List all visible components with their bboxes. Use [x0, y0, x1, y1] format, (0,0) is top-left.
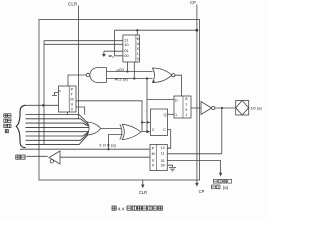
svg-text:s: s — [59, 89, 61, 93]
svg-text:4.4: 4.4 — [118, 206, 125, 212]
svg-text:P: P — [152, 146, 155, 150]
svg-text:00: 00 — [161, 163, 165, 167]
wire chip5 pin 01 down arrow — [167, 161, 220, 173]
svg-text:CLR: CLR — [139, 190, 147, 195]
CP bottom arrow — [195, 183, 198, 187]
chip5 pin1 wire — [167, 147, 170, 149]
nor gate G2 — [153, 68, 172, 83]
wire CP horizontal y30 — [115, 29, 197, 31]
wire to chip2 from brace hook — [26, 104, 59, 106]
svg-text:9: 9 — [185, 108, 187, 112]
pmux U5 chip5 — [150, 145, 167, 171]
CLR bottom output wire — [142, 180, 144, 185]
svg-text:U: U — [152, 159, 155, 163]
multiplexer U1 chip1 — [123, 35, 140, 62]
bottom right label two lines — [211, 179, 231, 189]
svg-text:P: P — [71, 88, 74, 92]
svg-text:AC1 (a): AC1 (a) — [115, 78, 129, 82]
inverter G5 — [201, 102, 212, 115]
chip5 right pin labels — [161, 146, 165, 167]
chip2 bottom pin — [67, 112, 69, 115]
svg-text:U: U — [137, 42, 140, 46]
wire nand output to chip2 — [68, 75, 86, 86]
left brace — [16, 105, 25, 147]
svg-text:M: M — [137, 37, 140, 41]
wire branch down from inverter out — [221, 108, 223, 154]
svg-text:0: 0 — [112, 55, 114, 59]
svg-text:01: 01 — [161, 159, 165, 163]
chip5 left text PMUX — [152, 146, 155, 167]
left chinese text blocks (来自控制存储器) — [4, 114, 11, 133]
svg-text:10: 10 — [161, 146, 165, 150]
svg-text:C: C — [163, 128, 166, 132]
mux U2 chip2 — [59, 86, 77, 112]
flipflop U4 chip4 — [151, 109, 168, 136]
arrow into chip4 pin1 — [147, 121, 151, 124]
svg-text:X: X — [71, 108, 74, 112]
wire chip3 left pin D — [147, 99, 174, 101]
node dot CP junction — [196, 29, 199, 32]
svg-text:Q: Q — [164, 113, 167, 117]
chip3 right column glyphs — [185, 97, 188, 117]
wire V2 vertical — [146, 79, 148, 132]
svg-text:1: 1 — [137, 52, 139, 56]
svg-text:CP: CP — [190, 0, 196, 5]
CLR wire — [78, 6, 80, 119]
wire chip5 pin 11 — [167, 153, 222, 155]
wire to chip1 pin10 — [44, 43, 123, 45]
wire pin01 with ground — [104, 51, 123, 54]
chip1 top pin — [136, 30, 138, 35]
chip1 right column vertical glyphs — [137, 37, 140, 61]
svg-text:(a): (a) — [223, 185, 229, 190]
svg-text:1: 1 — [175, 113, 177, 117]
wire vertical left inner — [43, 41, 45, 145]
reset buffer G6 — [49, 151, 60, 164]
chip4 Q wire to chip3 — [168, 113, 175, 115]
reset label 复位 — [16, 155, 25, 159]
xor out wire — [141, 131, 147, 133]
svg-text:X O R (a): X O R (a) — [99, 143, 117, 148]
chip2 vertical text PTMUX — [70, 88, 73, 112]
outer box — [39, 20, 200, 181]
wire bus line AC1 — [107, 78, 153, 80]
svg-text:D: D — [175, 99, 178, 103]
svg-text:CP: CP — [199, 189, 205, 194]
wire inverter to IO box — [215, 107, 236, 109]
svg-text:M: M — [152, 152, 155, 156]
chip1 bottom pins — [128, 62, 135, 79]
svg-text:1: 1 — [185, 103, 187, 107]
svg-text:1/0 (a): 1/0 (a) — [250, 106, 262, 111]
reset wire in — [27, 155, 48, 157]
svg-text:1: 1 — [185, 113, 187, 117]
xor a input wire — [20, 135, 150, 150]
branch to bus — [76, 107, 85, 115]
svg-text:X: X — [152, 164, 155, 168]
svg-text:M: M — [70, 98, 73, 102]
wire to chip1 pin11 — [44, 40, 123, 42]
chip2 left stub ground — [52, 93, 59, 96]
svg-text:00: 00 — [124, 53, 129, 58]
IO crossed box — [236, 101, 249, 116]
svg-text:0: 0 — [137, 57, 139, 61]
bus lines from control memory — [26, 115, 89, 145]
svg-text:C: C — [152, 128, 155, 132]
register U3 chip3 — [174, 96, 191, 118]
chip4 clock loop to chip5 — [167, 130, 170, 149]
svg-text:11: 11 — [161, 152, 165, 156]
wire or out — [101, 128, 121, 130]
caption 图4.4 — [112, 206, 116, 210]
nand gate G1 (left pointing) — [90, 68, 107, 83]
svg-text:μCD: μCD — [117, 68, 125, 72]
wire chip3 to inverter — [191, 107, 201, 109]
svg-text:U: U — [71, 103, 74, 107]
ground W0 — [102, 54, 106, 57]
svg-text:CLR: CLR — [68, 2, 78, 7]
chip5 pin 00 ground — [167, 165, 176, 171]
chip2 right out wire Wa — [76, 101, 142, 132]
wire nor out to chip3 — [175, 75, 182, 96]
CP wire — [196, 5, 198, 184]
svg-text:10: 10 — [124, 42, 129, 47]
xor gate G4 — [122, 124, 141, 139]
wire bus line uCD — [107, 71, 153, 73]
reset wire out to chip5 — [60, 156, 150, 158]
or gate G3 — [87, 122, 101, 135]
wire W0 stem — [115, 30, 123, 56]
